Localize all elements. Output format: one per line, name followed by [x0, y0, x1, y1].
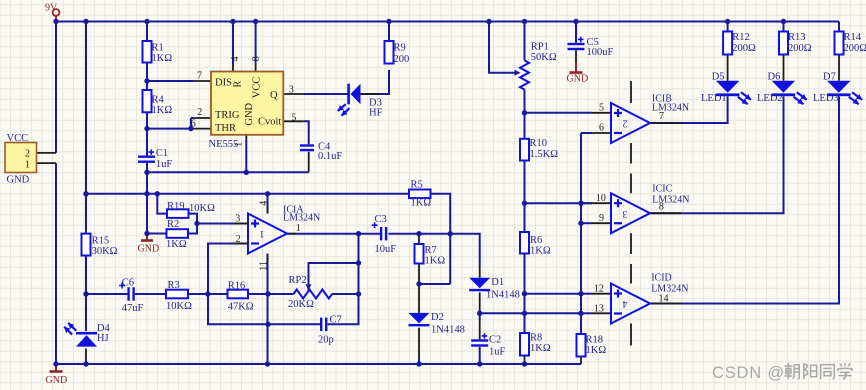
wire R10 to R6: [524, 161, 526, 233]
svg-text:5: 5: [599, 103, 604, 114]
junction nodes divider tap2: [522, 291, 584, 296]
wire rail to R9: [388, 22, 390, 42]
svg-text:5: 5: [291, 112, 296, 123]
wire D4 cathode lead: [85, 349, 87, 362]
pin 1 lead NE555: [245, 135, 247, 140]
junction node R19 R2 pin3: [194, 221, 199, 226]
svg-text:GND: GND: [567, 74, 589, 85]
svg-text:7: 7: [197, 70, 202, 81]
svg-text:Cvoit: Cvoit: [258, 117, 281, 128]
ground symbol at C5: [570, 71, 583, 74]
svg-text:Q: Q: [270, 90, 278, 101]
svg-text:CSDN @: CSDN @: [712, 364, 785, 382]
capacitor C6 polarized: [119, 283, 135, 301]
wire bus to ICIA pin4: [267, 194, 269, 214]
power stub bottom ICID: [630, 324, 632, 346]
wire C3 right to D1 anode: [389, 234, 480, 266]
svg-text:1KΩ: 1KΩ: [530, 246, 551, 257]
resistor R2: [167, 229, 189, 238]
svg-text:RP2: RP2: [289, 275, 307, 286]
pin 3 lead ICIA: [234, 223, 248, 225]
svg-text:7: 7: [659, 111, 664, 122]
wire C2 top lead: [479, 319, 481, 339]
ground symbol bottom left: [50, 370, 63, 373]
svg-text:13: 13: [594, 303, 604, 314]
wire R5 vertical branch: [449, 234, 451, 284]
svg-text:VCC: VCC: [7, 133, 29, 144]
wire 9V rail to connector pin2: [55, 22, 57, 153]
svg-text:1: 1: [25, 160, 30, 171]
svg-text:20KΩ: 20KΩ: [288, 299, 314, 310]
power stub top ICID: [630, 264, 632, 284]
svg-text:4: 4: [258, 201, 269, 206]
svg-text:TRIG: TRIG: [215, 110, 240, 121]
wire R8 bottom lead: [524, 356, 526, 365]
svg-text:R7: R7: [425, 245, 437, 256]
pin 5 lead ICIB: [592, 112, 611, 114]
svg-text:LED1: LED1: [701, 93, 727, 104]
wire R14 to D7: [838, 55, 840, 81]
wire R12 to D5: [727, 55, 729, 81]
wire ground bottom rail: [56, 363, 581, 365]
wire R18 bottom lead: [580, 357, 582, 365]
resistor R8: [520, 333, 529, 356]
svg-text:0.1uF: 0.1uF: [318, 151, 342, 162]
wire divider tap to ICID pin12: [525, 293, 582, 295]
wire rail to RP1 wiper: [489, 22, 518, 73]
svg-text:1KΩ: 1KΩ: [425, 256, 446, 267]
wire NE555 ground row: [147, 171, 309, 173]
wire connector pin2 lead: [37, 152, 57, 154]
svg-text:1uF: 1uF: [489, 347, 506, 358]
svg-text:11: 11: [258, 261, 269, 271]
svg-text:4: 4: [623, 298, 628, 309]
svg-text:1KΩ: 1KΩ: [530, 343, 551, 354]
pin 7 lead ICIB: [650, 122, 682, 124]
wire R16 node down to C7: [208, 294, 320, 324]
svg-text:R5: R5: [411, 180, 423, 191]
svg-text:10KΩ: 10KΩ: [166, 301, 192, 312]
svg-text:1uF: 1uF: [156, 159, 173, 170]
wire rail to C5: [575, 22, 577, 43]
svg-text:C7: C7: [330, 315, 342, 326]
NE555 timer U1 body: [211, 72, 283, 135]
pin 10 lead ICIC: [592, 202, 611, 204]
svg-text:1KΩ: 1KΩ: [411, 198, 432, 209]
svg-text:R2: R2: [167, 219, 179, 230]
power stub bottom ICIC: [630, 233, 632, 254]
resistor R4: [143, 90, 152, 112]
svg-text:GND: GND: [46, 375, 68, 386]
svg-text:D5: D5: [712, 72, 725, 83]
wire GND power stub at C5: [575, 62, 577, 73]
R15 top lead: [85, 230, 87, 234]
svg-text:1KΩ: 1KΩ: [586, 345, 607, 356]
wire GND bus row to R5: [86, 193, 409, 195]
pin 5 lead NE555: [283, 120, 303, 122]
power stub bottom ICIB: [630, 143, 632, 164]
svg-text:C2: C2: [489, 335, 501, 346]
svg-text:47uF: 47uF: [122, 303, 144, 314]
wire RP1 bottom to R10 with tap node: [524, 90, 526, 139]
svg-text:2: 2: [25, 149, 30, 160]
svg-text:2: 2: [623, 118, 628, 129]
svg-text:D7: D7: [823, 72, 836, 83]
junction node R2 GND: [144, 231, 149, 236]
svg-text:47KΩ: 47KΩ: [228, 302, 254, 313]
svg-text:8: 8: [251, 56, 262, 61]
wire C5 bottom lead: [575, 50, 577, 66]
svg-text:1: 1: [234, 142, 245, 147]
wire D2 to ground rail: [418, 359, 420, 364]
svg-text:30KΩ: 30KΩ: [92, 246, 118, 257]
svg-text:14: 14: [659, 294, 669, 305]
wire ICID output to LED D7: [650, 96, 839, 303]
LED D3: [347, 84, 360, 105]
svg-text:1: 1: [296, 223, 301, 234]
op-amp ICIA: [248, 214, 287, 254]
svg-text:LED3: LED3: [813, 93, 839, 104]
svg-text:D6: D6: [768, 72, 781, 83]
potentiometer RP2: [294, 290, 333, 299]
wire comparator low node row: [480, 312, 581, 314]
photodiode D4: [76, 332, 97, 347]
capacitor C1 polarized: [138, 149, 155, 163]
wire GND power stub bottom left: [55, 364, 57, 372]
wire R16 to RP2: [248, 293, 294, 295]
svg-text:200: 200: [394, 54, 410, 65]
resistor R14: [835, 32, 844, 55]
wire rail corner to R14: [838, 22, 840, 32]
capacitor C7: [320, 318, 327, 331]
svg-text:2: 2: [236, 234, 241, 245]
svg-text:10uF: 10uF: [375, 244, 397, 255]
junction node RP2 wiper: [356, 260, 361, 265]
wire RP2 wiper to output branch: [309, 263, 359, 291]
svg-text:12: 12: [594, 284, 604, 295]
svg-text:VCC: VCC: [251, 77, 262, 99]
wire ICIB output to LED D5: [650, 96, 728, 123]
wire rail down to R15: [85, 22, 87, 231]
svg-text:HF: HF: [369, 108, 383, 119]
power port 9V: [53, 9, 60, 16]
svg-text:D2: D2: [431, 312, 444, 323]
wire to ICIA pin3: [197, 223, 248, 225]
junction node C7 row: [265, 322, 270, 327]
svg-text:1N4148: 1N4148: [486, 290, 520, 301]
wire THR pin6 row: [147, 128, 193, 130]
svg-text:1N4148: 1N4148: [431, 325, 465, 336]
svg-text:R4: R4: [152, 95, 165, 106]
svg-text:LM324N: LM324N: [651, 284, 688, 295]
resistor R3: [166, 290, 188, 299]
wire R3 to R16: [188, 293, 228, 295]
connector VCC J1: [5, 143, 37, 173]
wire inverting input bus down to R18: [580, 133, 582, 334]
resistor R18: [577, 334, 586, 357]
pin 3 lead NE555: [283, 93, 303, 95]
wire R19 right to R2 right: [188, 214, 197, 234]
svg-text:R18: R18: [586, 335, 604, 346]
wire connector pin1 down to ground rail: [55, 163, 57, 364]
svg-text:2: 2: [197, 107, 202, 118]
wire R1 to R4 through DIS node: [146, 63, 148, 91]
pin 6 lead ICIB: [592, 132, 611, 134]
capacitor C5 polarized: [568, 37, 585, 51]
junction node pin9: [578, 221, 583, 226]
wire R5 right down to C3 row: [431, 194, 451, 234]
pin 11 lead ICIA: [267, 254, 269, 263]
capacitor C4: [300, 144, 314, 151]
LED D6 emit arrows: [794, 92, 807, 104]
LED D3 emit arrows: [338, 104, 350, 116]
wire ICID pin12 stub: [581, 293, 592, 295]
resistor R6: [520, 232, 529, 254]
wire ICIA pin2 down to R16 node: [208, 244, 248, 295]
svg-text:R15: R15: [92, 236, 110, 247]
wire DIS pin7 row: [147, 80, 193, 82]
wire D2 cathode lead: [418, 328, 420, 360]
pin 2 lead NE555: [193, 117, 211, 119]
pin 8 lead NE555: [255, 64, 257, 72]
wire R7 top lead: [418, 234, 420, 244]
wire R15 to D4: [85, 256, 87, 331]
junction dots low node row: [477, 311, 584, 316]
svg-text:GND: GND: [7, 175, 30, 186]
svg-text:R13: R13: [788, 32, 806, 43]
svg-text:3: 3: [235, 214, 240, 225]
pin 4 lead ICIA: [267, 205, 269, 214]
resistor R10: [520, 139, 529, 161]
svg-text:200Ω: 200Ω: [732, 43, 756, 54]
wire rail to R12: [727, 22, 729, 32]
svg-text:R19: R19: [167, 201, 185, 212]
wire D4 to ground rail: [85, 360, 87, 364]
pin 13 lead ICID: [592, 312, 611, 314]
resistor R13: [779, 32, 788, 55]
svg-text:GND: GND: [138, 244, 160, 255]
watermark chinese glyphs: [785, 363, 852, 378]
svg-text:LM324N: LM324N: [652, 102, 689, 113]
wire GND power stub at R2: [146, 235, 148, 241]
wire D4 node to C6: [86, 293, 127, 295]
RP1 wiper arrow: [515, 70, 521, 76]
wire rail to R13: [783, 22, 785, 32]
svg-text:3: 3: [289, 85, 294, 96]
wire TRIG pin2 stub: [191, 117, 193, 119]
wire rail to NE555 pin8: [255, 22, 257, 65]
svg-text:LED2: LED2: [757, 93, 783, 104]
LED D6: [772, 81, 796, 96]
resistor R1: [143, 41, 152, 63]
wire ICIA pin11 down to ground rail: [267, 254, 269, 365]
wire C4 bottom lead: [308, 152, 310, 173]
wire D3 anode up to R9: [361, 70, 390, 94]
svg-text:C3: C3: [375, 214, 387, 225]
svg-text:HJ: HJ: [97, 333, 109, 344]
wire Q pin3 to D3: [304, 93, 348, 95]
op-amp ICIC: [611, 193, 650, 233]
svg-text:20p: 20p: [318, 335, 334, 346]
resistor R9: [385, 41, 394, 64]
op-amp ICID: [611, 284, 650, 324]
junction dots on GND bus: [83, 191, 270, 196]
svg-text:ICIC: ICIC: [652, 184, 672, 195]
svg-text:1KΩ: 1KΩ: [152, 53, 173, 64]
D3 anode lead: [361, 93, 381, 95]
wire R7 bottom lead: [418, 264, 420, 285]
resistor R5: [409, 190, 431, 199]
pin 2 lead ICIA: [234, 243, 248, 245]
svg-text:1KΩ: 1KΩ: [166, 239, 187, 250]
svg-text:1KΩ: 1KΩ: [152, 105, 173, 116]
junction nodes THR TRIG C1: [144, 126, 193, 131]
wire ICIB pin6 corner: [581, 132, 592, 134]
wire 9V power port stub: [55, 16, 57, 22]
svg-text:THR: THR: [215, 123, 236, 134]
pin 7 lead NE555: [193, 80, 211, 82]
wire tap to ICIB pin5: [525, 112, 593, 114]
wire divider tap to ICIC pin10: [525, 202, 593, 204]
wire rail to NE555 pin4: [232, 22, 234, 65]
capacitor C2 polarized: [471, 333, 488, 346]
LED D7 emit arrows: [849, 92, 862, 104]
diode D2 1N4148: [409, 313, 430, 327]
svg-text:LM324N: LM324N: [283, 212, 320, 223]
wire R13 to D6: [783, 55, 785, 81]
svg-text:1.5KΩ: 1.5KΩ: [530, 149, 559, 160]
pin 6 lead NE555: [193, 128, 211, 130]
pin 14 lead ICID: [650, 303, 682, 305]
power stub top ICIB: [630, 81, 632, 103]
wire TRIG to THR junction: [190, 118, 192, 129]
wire ICIC output to LED D6: [650, 96, 784, 213]
LED D5 emit arrows: [738, 92, 751, 104]
wire node to C2: [479, 313, 481, 320]
wire R6 to R8: [524, 254, 526, 334]
svg-text:200Ω: 200Ω: [844, 43, 866, 54]
wire C6 to R3: [135, 293, 166, 295]
svg-text:10: 10: [596, 193, 606, 204]
capacitor C3 polarized: [372, 222, 388, 240]
wire R2 left lead: [147, 233, 167, 235]
RP2 wiper arrow: [306, 284, 312, 290]
resistor R15: [82, 234, 91, 256]
wire ICIC pin9 stub: [581, 222, 592, 224]
photodiode D4 arrows: [64, 323, 76, 335]
junction node R1 R4 DIS: [144, 78, 149, 83]
wire ICIA output to C3: [287, 233, 380, 235]
wire ICID pin13 stub: [581, 312, 592, 314]
junction node RP1 tap: [522, 110, 527, 115]
svg-text:9V: 9V: [45, 3, 58, 14]
ground symbol at R2: [141, 239, 153, 242]
wire C1 bottom down through GND bus to R2: [146, 163, 148, 234]
svg-text:R8: R8: [530, 333, 542, 344]
junction dots on output row: [356, 231, 453, 236]
LED D5: [716, 81, 740, 96]
LED D7: [827, 81, 851, 96]
wire R5 branch to D2 anode: [419, 283, 450, 285]
resistor R19: [167, 209, 189, 218]
svg-text:1: 1: [260, 228, 265, 239]
svg-text:R10: R10: [530, 138, 548, 149]
pin 12 lead ICID: [592, 293, 611, 295]
wire pin5 to C4: [304, 121, 309, 144]
svg-text:6: 6: [599, 123, 604, 134]
pin 4 lead NE555: [232, 64, 234, 72]
junction nodes NE555 ground row: [144, 170, 249, 175]
resistor R7: [415, 244, 424, 264]
pin 9 lead ICIC: [592, 222, 611, 224]
op-amp ICIB: [611, 103, 650, 143]
junction nodes divider tap1: [522, 201, 584, 206]
svg-text:C6: C6: [122, 278, 134, 289]
svg-text:R9: R9: [394, 43, 406, 54]
svg-text:R1: R1: [152, 43, 164, 54]
svg-text:3: 3: [623, 208, 628, 219]
wire C2 bottom to ground rail: [479, 347, 481, 364]
svg-text:GND: GND: [244, 102, 255, 125]
svg-text:R16: R16: [228, 281, 246, 292]
svg-text:100uF: 100uF: [587, 47, 614, 58]
svg-text:R6: R6: [530, 235, 542, 246]
svg-text:R12: R12: [732, 32, 750, 43]
wire rail to RP1 top: [524, 22, 526, 61]
wire connector pin1 lead: [37, 162, 57, 164]
svg-text:R14: R14: [844, 32, 862, 43]
svg-text:D1: D1: [491, 277, 504, 288]
junction dots on R3 R16 row: [83, 291, 361, 296]
svg-text:LM324N: LM324N: [652, 195, 689, 206]
svg-text:ICID: ICID: [651, 273, 672, 284]
svg-text:C1: C1: [156, 148, 168, 159]
resistor R12: [723, 32, 732, 55]
junction dots on ground rail: [53, 361, 527, 366]
svg-text:4: 4: [230, 57, 241, 62]
wire R4 to THR node to C1: [146, 112, 148, 155]
wire D2 anode lead: [418, 284, 420, 313]
svg-text:50KΩ: 50KΩ: [531, 52, 557, 63]
svg-text:DIS: DIS: [215, 78, 232, 89]
svg-text:RP1: RP1: [531, 42, 549, 53]
wire rail to R1: [146, 22, 148, 42]
svg-text:9: 9: [599, 213, 604, 224]
resistor R16: [228, 290, 249, 299]
svg-text:R3: R3: [168, 280, 180, 291]
wire D1 anode lead: [479, 266, 481, 278]
svg-text:R: R: [233, 81, 244, 88]
svg-text:10KΩ: 10KΩ: [189, 203, 215, 214]
wire C7 right up to output node: [328, 234, 359, 325]
wire D1 cathode lead: [479, 292, 481, 311]
power stub top ICIC: [630, 174, 632, 194]
wire NE555 pin1 stub: [245, 140, 247, 172]
wire RP2 right lead: [332, 293, 359, 295]
junction dots on 9V rail: [53, 19, 786, 24]
svg-text:200Ω: 200Ω: [788, 43, 812, 54]
wire +9V top rail: [56, 21, 839, 23]
pin 8 lead ICIC: [650, 212, 681, 214]
wire bus down to R19: [157, 194, 167, 214]
wire D1 cathode to node: [479, 310, 481, 313]
potentiometer RP1: [520, 60, 529, 89]
diode D1 1N4148: [469, 278, 490, 292]
wire ICIC pin10 stub: [581, 202, 592, 204]
pin 1 lead ICIA: [287, 233, 296, 235]
junction node R7 D2: [416, 281, 421, 286]
svg-text:8: 8: [659, 202, 664, 213]
